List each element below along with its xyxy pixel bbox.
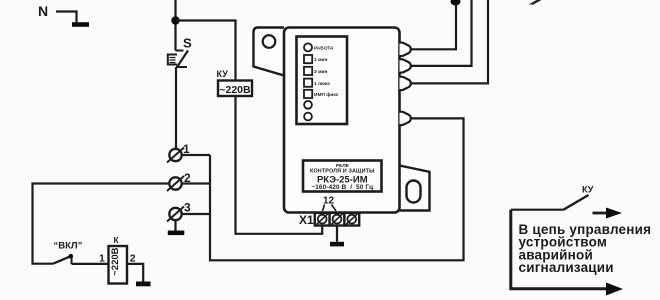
indicator panel bbox=[297, 37, 348, 125]
LED RABOTA bbox=[304, 43, 312, 51]
svg-text:1 мин: 1 мин bbox=[314, 57, 327, 63]
pointer line pin2 bbox=[332, 205, 337, 212]
terminal tab 1 bbox=[400, 42, 411, 56]
wire K to neutral bar bbox=[127, 264, 143, 282]
svg-text:3 мин: 3 мин bbox=[314, 69, 327, 75]
wire branch to KU coil bbox=[176, 21, 236, 81]
device right mounting ear bbox=[400, 166, 430, 211]
LED 1 min bbox=[304, 55, 312, 63]
terminal tab 2 bbox=[400, 59, 411, 73]
relay K box ~220V bbox=[109, 246, 128, 284]
wire terminal2 to VKL switch bbox=[33, 184, 170, 264]
wire down-and-right thick bbox=[511, 210, 607, 289]
svg-text:“ВКЛ”: “ВКЛ” bbox=[54, 240, 83, 251]
svg-text:3: 3 bbox=[184, 201, 191, 215]
svg-text:сигнализации: сигнализации bbox=[519, 260, 614, 275]
LED IMP fix bbox=[304, 90, 312, 98]
switch VKL fixed contact tick bbox=[71, 257, 73, 264]
terminal 3 bbox=[167, 201, 191, 222]
svg-text:ИМП фикс: ИМП фикс bbox=[314, 91, 339, 98]
wire S to terminal 1 bbox=[175, 67, 177, 149]
wire stub top right bbox=[529, 0, 542, 5]
LED blank 1 bbox=[304, 101, 312, 109]
wire tab3 up bbox=[411, 0, 488, 83]
switch KU blade bbox=[564, 195, 589, 210]
svg-text:~220В: ~220В bbox=[219, 84, 251, 96]
terminal 2 bbox=[167, 171, 191, 191]
junction dot top bbox=[451, 0, 461, 6]
wire terminal3 ground stub bbox=[174, 220, 176, 230]
svg-text:1 люкс: 1 люкс bbox=[314, 81, 330, 87]
svg-text:S: S bbox=[183, 36, 192, 51]
X1 screw terminal 2 bbox=[330, 213, 345, 226]
nameplate box bbox=[303, 161, 382, 192]
pointer line pin1 bbox=[323, 205, 325, 212]
wire to KU switch bbox=[511, 209, 564, 211]
svg-text:К: К bbox=[114, 235, 120, 245]
terminal tab 3 bbox=[400, 77, 411, 91]
svg-text:N: N bbox=[38, 3, 48, 19]
switch S pushbutton contact bbox=[168, 51, 188, 68]
relay module body RKE-25-IM bbox=[284, 28, 400, 213]
wire X1 pin2 ground stub bbox=[336, 226, 338, 242]
svg-text:~220В: ~220В bbox=[110, 247, 121, 275]
X1 screw terminal 3 bbox=[344, 213, 359, 226]
switch VKL blade bbox=[53, 256, 71, 263]
ground bar under terminal 3 bbox=[168, 231, 185, 236]
neutral bar at K bbox=[136, 282, 151, 287]
wire tab2 up bbox=[411, 0, 472, 66]
svg-text:РАБОТА: РАБОТА bbox=[314, 45, 334, 51]
caption text block bbox=[519, 222, 652, 275]
wire KU coil to X1 pin1 bbox=[236, 96, 323, 234]
svg-text:~160-420 В / 50 Гц: ~160-420 В / 50 Гц bbox=[311, 184, 373, 191]
LED 1 lux bbox=[304, 79, 312, 87]
wire N lead bbox=[56, 12, 77, 23]
X1 screw terminal 1 bbox=[315, 213, 330, 226]
svg-text:КУ: КУ bbox=[582, 184, 594, 194]
wire bus loop to device tab4 bbox=[210, 118, 464, 260]
terminal 1 bbox=[167, 142, 190, 163]
wire L main vertical drop bbox=[174, 0, 176, 51]
arrow out 2 bbox=[606, 283, 623, 296]
wire terminal3 to bus bbox=[182, 213, 210, 215]
arrow out 1 bbox=[593, 212, 608, 215]
device left mounting ear bbox=[254, 28, 285, 76]
junction dot bbox=[171, 16, 179, 24]
wire terminal2 to bus bbox=[182, 182, 210, 184]
svg-text:1: 1 bbox=[99, 253, 105, 265]
svg-text:X1: X1 bbox=[299, 213, 314, 227]
coil KU box ~220V bbox=[218, 81, 252, 97]
LED 3 min bbox=[304, 67, 312, 75]
neutral bus bar terminal bbox=[72, 22, 89, 27]
LED blank 2 bbox=[304, 113, 312, 121]
wire tab1 up bbox=[411, 0, 456, 49]
wire VKL to K box bbox=[72, 263, 109, 265]
svg-text:2: 2 bbox=[130, 253, 136, 265]
ear hole bbox=[263, 35, 276, 48]
neutral bar at X1 bbox=[330, 242, 344, 247]
wire terminal1 to bus bbox=[182, 154, 210, 156]
terminal tab 4 bbox=[400, 112, 411, 126]
svg-text:КУ: КУ bbox=[217, 69, 229, 79]
ear oval hole bbox=[407, 181, 421, 203]
